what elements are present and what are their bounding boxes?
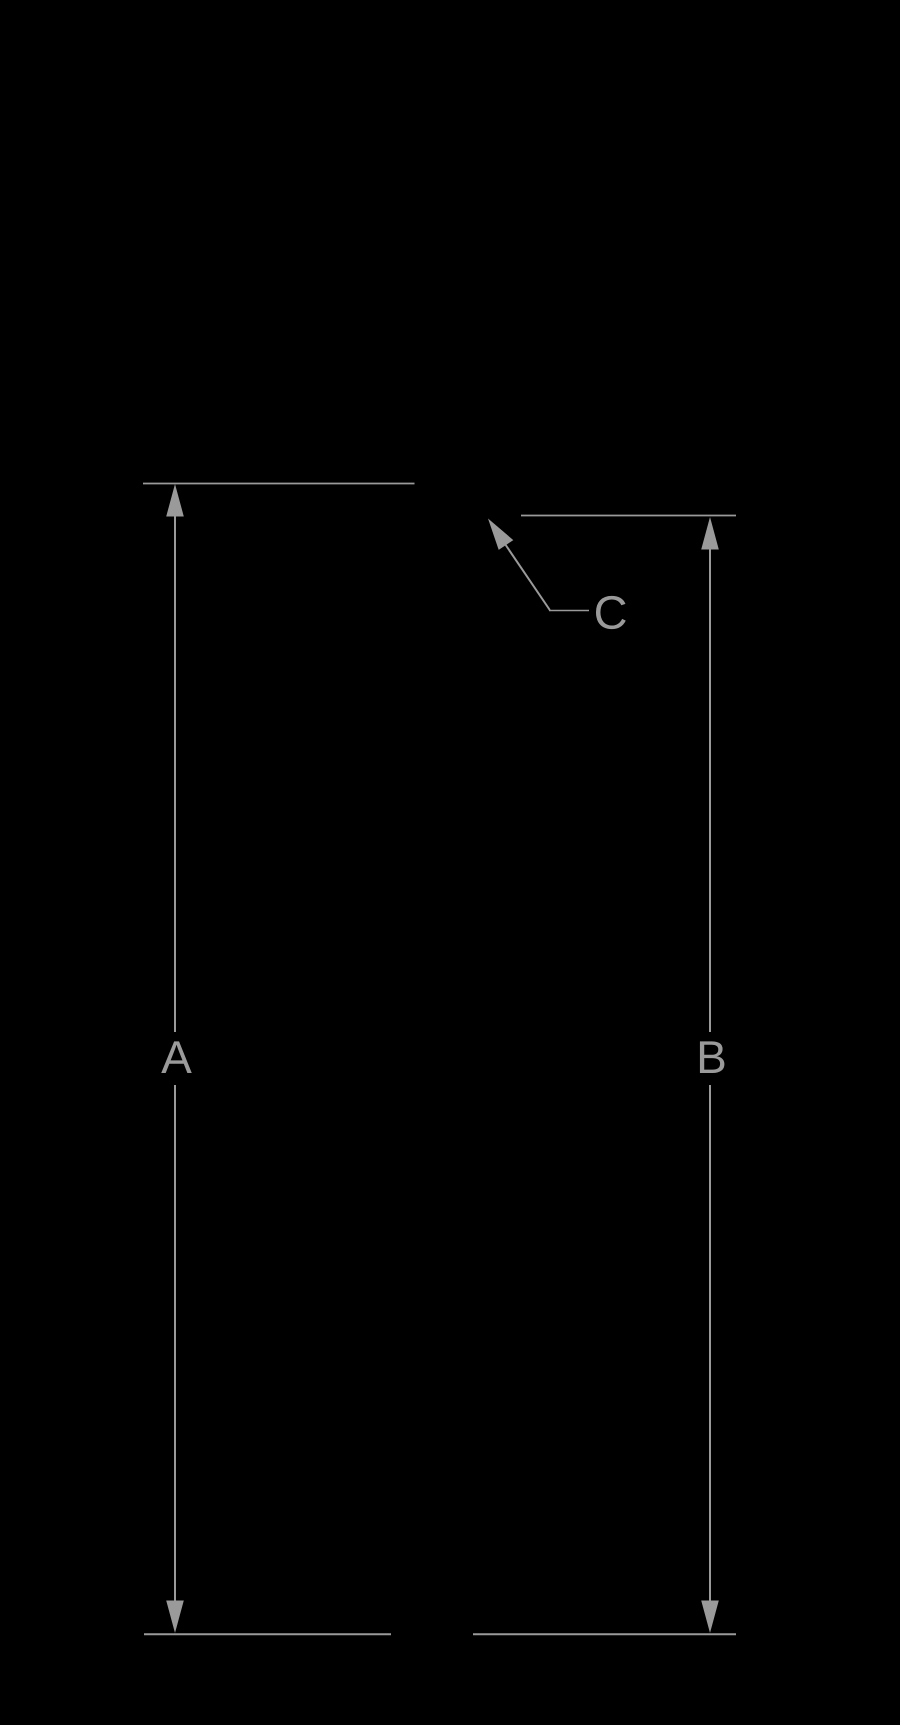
dimension A shaft lower <box>174 1085 176 1604</box>
label A <box>161 1041 192 1073</box>
arrowhead B bottom <box>701 1601 719 1634</box>
arrowhead A bottom <box>166 1601 184 1634</box>
extension line A top <box>143 483 415 485</box>
dimension B shaft upper <box>709 545 711 1032</box>
extension line B bottom <box>473 1633 736 1635</box>
extension line A bottom <box>144 1633 391 1635</box>
arrowhead C <box>488 519 513 550</box>
arrowhead A top <box>166 484 184 517</box>
dimension A shaft upper <box>174 513 176 1032</box>
extension line B top <box>521 515 736 517</box>
arrowhead B top <box>701 517 719 550</box>
leader line C diagonal <box>505 544 550 610</box>
leader line C horizontal <box>549 610 589 612</box>
label C <box>596 596 626 629</box>
label B <box>700 1041 724 1073</box>
dimension B shaft lower <box>709 1085 711 1604</box>
